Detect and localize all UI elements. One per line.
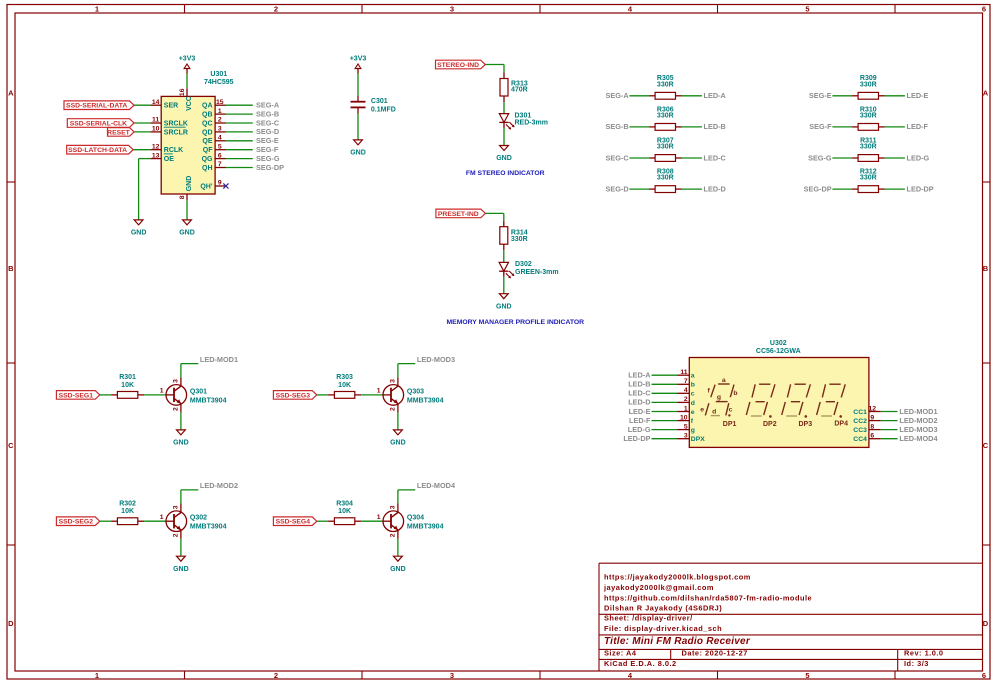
svg-text:74HC595: 74HC595: [204, 79, 234, 86]
resistor R314 330R: [500, 221, 528, 251]
wire SEG-DP to R312: [832, 188, 852, 190]
svg-text:DPX: DPX: [691, 436, 705, 443]
wire OE to ground: [139, 159, 151, 220]
global label SSD-SERIAL-CLK: [67, 119, 134, 128]
svg-text:U302: U302: [770, 340, 787, 347]
wire R303 to Q303 base: [361, 394, 383, 396]
svg-text:KiCad E.D.A. 8.0.2: KiCad E.D.A. 8.0.2: [604, 659, 677, 668]
svg-text:LED-MOD1: LED-MOD1: [200, 355, 238, 364]
wire SEG-D to R308: [629, 188, 649, 190]
wire SEG-C to R307: [629, 157, 649, 159]
U302 left pins 11/7/4/2/1/10/5/3: [678, 369, 690, 440]
svg-text:QH: QH: [202, 165, 213, 172]
svg-text:Sheet: /display-driver/: Sheet: /display-driver/: [604, 613, 693, 622]
wire PRESET-IND to R314: [485, 213, 503, 220]
svg-text:GND: GND: [390, 566, 406, 573]
svg-text:13: 13: [152, 152, 160, 159]
svg-text:R304: R304: [336, 501, 353, 508]
svg-text:3: 3: [173, 379, 180, 383]
global label SSD-SEG2: [56, 517, 99, 526]
svg-text:10K: 10K: [121, 382, 134, 389]
wire Q303 collector to LED-MOD3: [398, 364, 415, 378]
svg-text:GND: GND: [496, 303, 512, 310]
svg-text:C: C: [983, 441, 989, 450]
wire D302 to ground: [503, 277, 505, 294]
LED D301 RED-3mm: [499, 113, 548, 130]
global label SSD-SEG3: [273, 391, 316, 400]
svg-text:QD: QD: [202, 129, 213, 136]
svg-text:Rev: 1.0.0: Rev: 1.0.0: [904, 649, 944, 658]
svg-text:0.1MFD: 0.1MFD: [371, 106, 396, 113]
svg-text:https://github.com/dilshan/rda: https://github.com/dilshan/rda5807-fm-ra…: [604, 593, 812, 602]
svg-text:GND: GND: [186, 176, 193, 192]
svg-text:g: g: [691, 427, 695, 434]
svg-text:LED-MOD4: LED-MOD4: [899, 434, 938, 443]
svg-text:MMBT3904: MMBT3904: [407, 524, 444, 531]
svg-text:Title: Mini FM Radio Receiver: Title: Mini FM Radio Receiver: [604, 636, 751, 647]
svg-text:DP4: DP4: [834, 421, 848, 428]
svg-text:6: 6: [982, 671, 986, 680]
wire R310 to LED-F: [885, 126, 905, 128]
svg-text:SEG-G: SEG-G: [256, 154, 280, 163]
wire SEG-E to R309: [832, 95, 852, 97]
svg-text:4: 4: [684, 387, 688, 394]
U302 digit 1 segments with a-g annotations: [700, 377, 737, 417]
net labels SEG-A..SEG-DP at U301: [256, 101, 284, 172]
svg-text:470R: 470R: [511, 87, 528, 94]
svg-text:SSD-SERIAL-DATA: SSD-SERIAL-DATA: [66, 103, 127, 110]
svg-text:b: b: [691, 382, 695, 389]
svg-text:Q304: Q304: [407, 515, 424, 522]
wire R307 to LED-C: [682, 157, 702, 159]
transistor Q303 MMBT3904: [377, 377, 444, 412]
svg-text:1: 1: [95, 4, 99, 13]
svg-text:3: 3: [450, 671, 454, 680]
svg-text:SER: SER: [164, 103, 178, 110]
ground (OE): [131, 220, 147, 237]
resistor R311 330R: [852, 137, 884, 161]
svg-text:DP1: DP1: [723, 421, 737, 428]
wire U301 GND pin to ground: [186, 201, 188, 220]
svg-text:QC: QC: [202, 120, 213, 127]
U302 left pin names a-g DPX: [691, 373, 705, 444]
resistor R309 330R: [852, 75, 884, 99]
svg-text:MMBT3904: MMBT3904: [407, 397, 444, 404]
wire SSD-SEG4 to R304: [317, 520, 328, 522]
svg-text:2: 2: [218, 117, 222, 124]
wire SEG-A to R305: [629, 95, 649, 97]
svg-text:7: 7: [218, 161, 222, 168]
svg-text:2: 2: [684, 396, 688, 403]
wire C301 to ground: [357, 114, 359, 140]
resistor R305 330R: [649, 75, 681, 99]
svg-text:Date: 2020-12-27: Date: 2020-12-27: [682, 649, 748, 658]
svg-text:330R: 330R: [657, 144, 674, 151]
svg-text:LED-C: LED-C: [704, 153, 727, 162]
svg-text:4: 4: [218, 135, 222, 142]
wire SSD-SERIAL-CLK to SRCLK: [134, 122, 150, 124]
svg-text:3: 3: [450, 4, 454, 13]
svg-text:1: 1: [95, 671, 99, 680]
svg-text:RED-3mm: RED-3mm: [515, 120, 548, 127]
svg-text:330R: 330R: [511, 236, 528, 243]
U302 digit 4 segments: [817, 384, 846, 418]
svg-text:RCLK: RCLK: [164, 147, 183, 154]
wire D301 to ground: [503, 128, 505, 146]
wire R308 to LED-D: [682, 188, 702, 190]
wire Q302 collector to LED-MOD2: [181, 490, 198, 504]
svg-text:LED-E: LED-E: [629, 407, 651, 416]
svg-text:5: 5: [805, 671, 809, 680]
svg-text:Size: A4: Size: A4: [604, 649, 637, 658]
svg-text:MMBT3904: MMBT3904: [190, 397, 227, 404]
svg-text:+3V3: +3V3: [350, 56, 367, 63]
U302 right pin names CC1-CC4: [853, 409, 867, 443]
svg-text:a: a: [691, 373, 695, 380]
svg-text:PRESET-IND: PRESET-IND: [438, 211, 479, 218]
wire SSD-SERIAL-DATA to SER: [134, 104, 150, 106]
svg-text:SEG-G: SEG-G: [808, 153, 832, 162]
svg-text:5: 5: [805, 4, 809, 13]
svg-text:U301: U301: [210, 71, 227, 78]
svg-text:LED-MOD2: LED-MOD2: [200, 481, 238, 490]
ground (Q302): [173, 556, 189, 573]
wire Q304 collector to LED-MOD4: [398, 490, 415, 504]
net labels LED-MOD1..4 at U302: [899, 407, 938, 443]
svg-text:SSD-SEG4: SSD-SEG4: [276, 519, 311, 526]
svg-text:10: 10: [680, 414, 688, 421]
svg-text:2: 2: [390, 407, 397, 411]
svg-text:jayakody2000lk@gmail.com: jayakody2000lk@gmail.com: [603, 583, 714, 592]
global label SSD-SEG1: [56, 391, 99, 400]
svg-text:2: 2: [173, 533, 180, 537]
svg-text:g: g: [717, 394, 721, 401]
svg-text:D: D: [983, 619, 989, 628]
svg-text:14: 14: [152, 99, 160, 106]
svg-text:b: b: [733, 390, 737, 397]
svg-text:Q303: Q303: [407, 388, 424, 395]
svg-text:C301: C301: [371, 98, 388, 105]
svg-text:SSD-SEG1: SSD-SEG1: [59, 392, 94, 399]
svg-text:LED-DP: LED-DP: [907, 184, 934, 193]
svg-text:15: 15: [216, 99, 224, 106]
svg-text:2: 2: [390, 533, 397, 537]
svg-text:GND: GND: [173, 440, 189, 447]
svg-text:SEG-F: SEG-F: [809, 122, 832, 131]
svg-text:LED-MOD1: LED-MOD1: [899, 407, 937, 416]
svg-text:RESET: RESET: [107, 129, 131, 136]
svg-text:330R: 330R: [860, 81, 877, 88]
U302 digit 2 segments: [746, 384, 775, 418]
svg-text:2: 2: [274, 671, 278, 680]
svg-text:6: 6: [982, 4, 986, 13]
svg-text:GND: GND: [131, 230, 147, 237]
global label PRESET-IND: [436, 209, 486, 218]
wire R305 to LED-A: [682, 95, 702, 97]
svg-text:SRCLK: SRCLK: [164, 120, 188, 127]
svg-text:10K: 10K: [338, 508, 351, 515]
transistor Q304 MMBT3904: [377, 504, 444, 539]
svg-text:LED-A: LED-A: [628, 371, 651, 380]
capacitor C301: [351, 96, 396, 114]
wire R311 to LED-G: [885, 157, 905, 159]
wire U301 VCC to +3V3: [186, 74, 188, 89]
svg-text:B: B: [983, 264, 989, 273]
svg-text:R303: R303: [336, 374, 353, 381]
wire R301 to Q301 base: [144, 394, 166, 396]
svg-text:GND: GND: [350, 150, 366, 157]
svg-text:D302: D302: [515, 261, 532, 268]
svg-text:SEG-F: SEG-F: [256, 145, 279, 154]
op-amp U301 74HC595 shift register body: [161, 71, 233, 194]
svg-text:C: C: [8, 441, 14, 450]
svg-text:CC56-12GWA: CC56-12GWA: [756, 348, 801, 355]
svg-text:LED-MOD3: LED-MOD3: [417, 355, 455, 364]
svg-text:DP3: DP3: [798, 421, 812, 428]
svg-text:11: 11: [152, 117, 159, 124]
wire SSD-SEG1 to R301: [100, 394, 111, 396]
svg-text:1: 1: [218, 108, 222, 115]
svg-text:e: e: [700, 406, 704, 413]
svg-text:SSD-SEG2: SSD-SEG2: [59, 519, 94, 526]
svg-text:CC4: CC4: [853, 436, 867, 443]
wires U302 commons to LED-MOD nets: [881, 412, 898, 439]
svg-text:9: 9: [870, 414, 874, 421]
svg-text:QE: QE: [202, 138, 212, 145]
svg-text:QG: QG: [202, 156, 213, 163]
svg-text:SEG-B: SEG-B: [256, 109, 279, 118]
wire +3V3 to C301: [357, 74, 359, 96]
svg-text:2: 2: [274, 4, 278, 13]
svg-text:1: 1: [377, 388, 381, 395]
ground (Q301): [173, 430, 189, 447]
svg-text:SEG-A: SEG-A: [605, 91, 629, 100]
svg-text:D301: D301: [515, 113, 532, 120]
title block: [599, 563, 983, 671]
ground (C301): [350, 140, 366, 157]
U301 left pins 14/11/10/12/13: [150, 99, 188, 163]
svg-text:330R: 330R: [657, 81, 674, 88]
svg-text:GND: GND: [173, 566, 189, 573]
wire SSD-SEG2 to R302: [100, 520, 111, 522]
svg-text:LED-G: LED-G: [628, 425, 651, 434]
U302 right pins CC1-CC4: [869, 405, 881, 439]
svg-text:LED-DP: LED-DP: [623, 434, 650, 443]
svg-text:A: A: [983, 88, 989, 97]
svg-text:SEG-C: SEG-C: [605, 153, 629, 162]
wire SSD-LATCH-DATA to RCLK: [133, 149, 150, 151]
svg-text:QH': QH': [200, 183, 213, 190]
resistor R313 470R: [500, 73, 528, 103]
svg-text:c: c: [729, 406, 733, 413]
svg-text:SEG-D: SEG-D: [605, 184, 628, 193]
wire Q304 emitter to ground: [397, 539, 399, 556]
wire R313 to D301: [503, 102, 505, 114]
svg-text:B: B: [8, 264, 14, 273]
svg-text:10: 10: [152, 126, 160, 133]
resistor R312 330R: [852, 169, 884, 193]
svg-text:LED-MOD4: LED-MOD4: [417, 481, 456, 490]
svg-text:5: 5: [684, 423, 688, 430]
svg-text:SEG-E: SEG-E: [256, 136, 279, 145]
svg-text:10K: 10K: [121, 508, 134, 515]
svg-text:LED-MOD2: LED-MOD2: [899, 416, 937, 425]
svg-text:10K: 10K: [338, 382, 351, 389]
svg-text:SEG-E: SEG-E: [809, 91, 832, 100]
svg-text:QF: QF: [203, 147, 213, 154]
svg-text:LED-A: LED-A: [704, 91, 727, 100]
svg-text:DP2: DP2: [763, 421, 777, 428]
svg-text:CC1: CC1: [853, 409, 867, 416]
wire RESET to SRCLR: [134, 131, 150, 133]
7-segment display U302 CC56-12GWA body: [689, 340, 869, 448]
resistor R303 10K: [328, 374, 361, 398]
svg-text:Q302: Q302: [190, 515, 207, 522]
wire R312 to LED-DP: [885, 188, 905, 190]
wire Q303 emitter to ground: [397, 413, 399, 430]
svg-text:SEG-DP: SEG-DP: [256, 163, 284, 172]
svg-text:1: 1: [160, 388, 164, 395]
svg-text:Q301: Q301: [190, 388, 207, 395]
power +3V3 (C301): [350, 56, 367, 74]
svg-text:6: 6: [870, 433, 874, 440]
U301 pin 16 VCC: [179, 88, 193, 111]
svg-text:12: 12: [152, 143, 160, 150]
wire R302 to Q302 base: [144, 520, 166, 522]
svg-text:+3V3: +3V3: [179, 56, 196, 63]
global label RESET: [107, 128, 134, 137]
svg-text:1: 1: [684, 405, 688, 412]
svg-text:LED-F: LED-F: [629, 416, 651, 425]
svg-text:SRCLR: SRCLR: [164, 129, 188, 136]
svg-text:QA: QA: [202, 103, 213, 110]
svg-text:LED-D: LED-D: [628, 398, 650, 407]
svg-text:7: 7: [684, 378, 688, 385]
svg-text:OE: OE: [164, 156, 174, 163]
svg-text:File: display-driver.kicad_sch: File: display-driver.kicad_sch: [604, 624, 722, 633]
svg-text:Id: 3/3: Id: 3/3: [904, 659, 929, 668]
svg-text:SEG-DP: SEG-DP: [804, 184, 832, 193]
svg-text:330R: 330R: [860, 113, 877, 120]
svg-text:Dilshan R Jayakody (4S6DRJ): Dilshan R Jayakody (4S6DRJ): [604, 604, 722, 613]
svg-text:GND: GND: [390, 440, 406, 447]
wire R314 to D302: [503, 250, 505, 262]
svg-text:SSD-LATCH-DATA: SSD-LATCH-DATA: [68, 147, 127, 154]
resistor R301 10K: [111, 374, 144, 398]
svg-text:330R: 330R: [657, 113, 674, 120]
svg-text:LED-MOD3: LED-MOD3: [899, 425, 937, 434]
wire R309 to LED-E: [885, 95, 905, 97]
U301 pin 8 GND: [179, 176, 193, 201]
svg-text:VCC: VCC: [186, 96, 193, 111]
svg-text:GND: GND: [179, 230, 195, 237]
resistor R307 330R: [649, 137, 681, 161]
ground (Q304): [390, 556, 406, 573]
svg-text:CC2: CC2: [853, 418, 867, 425]
svg-text:SSD-SERIAL-CLK: SSD-SERIAL-CLK: [70, 120, 127, 127]
wire Q302 emitter to ground: [180, 539, 182, 556]
svg-text:SEG-C: SEG-C: [256, 118, 280, 127]
U301 right pins QA-QH QH': [200, 99, 226, 190]
svg-text:12: 12: [869, 405, 877, 412]
svg-text:3: 3: [390, 379, 397, 383]
wire STEREO-IND to R313: [485, 65, 504, 73]
global label SSD-SERIAL-DATA: [64, 101, 134, 110]
resistor R304 10K: [328, 501, 361, 525]
global label SSD-LATCH-DATA: [67, 145, 134, 154]
svg-text:e: e: [691, 409, 695, 416]
svg-text:3: 3: [684, 433, 688, 440]
svg-text:330R: 330R: [860, 144, 877, 151]
svg-text:https://jayakody2000lk.blogspo: https://jayakody2000lk.blogspot.com: [604, 572, 751, 581]
resistor R308 330R: [649, 169, 681, 193]
svg-text:330R: 330R: [860, 175, 877, 182]
net labels LED-A..LED-DP at U302: [623, 371, 651, 444]
svg-text:SSD-SEG3: SSD-SEG3: [276, 392, 311, 399]
wire Q301 collector to LED-MOD1: [181, 364, 198, 378]
svg-text:LED-D: LED-D: [704, 184, 726, 193]
svg-text:6: 6: [218, 152, 222, 159]
svg-text:2: 2: [173, 407, 180, 411]
svg-text:STEREO-IND: STEREO-IND: [437, 62, 479, 69]
svg-text:330R: 330R: [657, 175, 674, 182]
transistor Q301 MMBT3904: [160, 377, 227, 412]
svg-text:R302: R302: [119, 501, 136, 508]
svg-text:c: c: [691, 391, 695, 398]
svg-text:D: D: [8, 619, 14, 628]
wire R306 to LED-B: [682, 126, 702, 128]
svg-text:8: 8: [870, 423, 874, 430]
LED D302 GREEN-3mm: [499, 261, 558, 278]
svg-text:SEG-A: SEG-A: [256, 101, 280, 110]
svg-text:QB: QB: [202, 112, 213, 119]
ground (Q303): [390, 430, 406, 447]
wire SSD-SEG3 to R303: [317, 394, 328, 396]
svg-text:3: 3: [218, 126, 222, 133]
no-connect X on U301 pin 9: [223, 183, 228, 188]
svg-text:LED-E: LED-E: [907, 91, 929, 100]
power +3V3 (U301): [179, 56, 196, 74]
U302 digit 3 segments: [782, 384, 811, 418]
resistor R310 330R: [852, 106, 884, 130]
svg-text:1: 1: [377, 514, 381, 521]
svg-text:GREEN-3mm: GREEN-3mm: [515, 269, 559, 276]
global label SSD-SEG4: [273, 517, 316, 526]
svg-text:FM STEREO INDICATOR: FM STEREO INDICATOR: [466, 170, 545, 177]
ground (D301): [496, 146, 512, 163]
svg-text:16: 16: [179, 88, 186, 96]
wire R304 to Q304 base: [361, 520, 383, 522]
resistor R306 330R: [649, 106, 681, 130]
svg-text:1: 1: [160, 514, 164, 521]
ground (D302): [496, 294, 512, 311]
svg-text:d: d: [691, 400, 695, 407]
svg-text:d: d: [712, 408, 716, 415]
svg-text:SEG-B: SEG-B: [605, 122, 628, 131]
svg-text:LED-B: LED-B: [704, 122, 726, 131]
svg-text:8: 8: [179, 195, 186, 199]
svg-text:MEMORY MANAGER PROFILE INDICAT: MEMORY MANAGER PROFILE INDICATOR: [447, 319, 585, 326]
ground (U301): [179, 220, 195, 237]
global label STEREO-IND: [436, 60, 486, 69]
svg-text:a: a: [722, 377, 726, 384]
svg-text:11: 11: [680, 369, 687, 376]
svg-text:3: 3: [390, 505, 397, 509]
svg-text:3: 3: [173, 505, 180, 509]
svg-text:LED-G: LED-G: [907, 153, 930, 162]
wires U301 outputs to SEG nets: [226, 105, 253, 167]
wires LED nets to U302: [652, 375, 678, 439]
